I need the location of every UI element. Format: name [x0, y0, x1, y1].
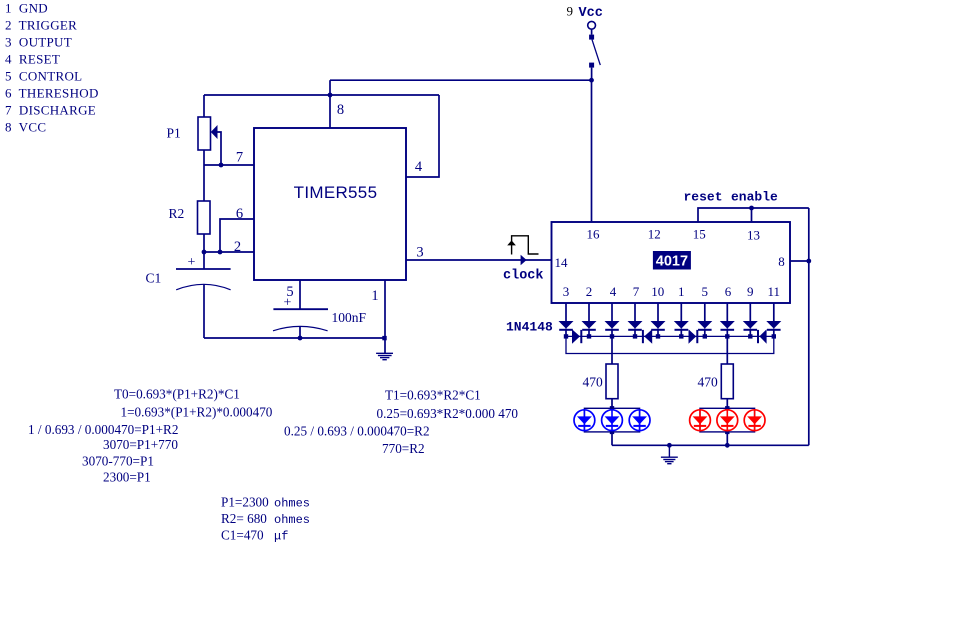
- junction: pin6 riser on pin2 line: [218, 250, 223, 255]
- junction: node 5: [656, 334, 660, 338]
- svg-text:4 RESET: 4 RESET: [5, 52, 60, 67]
- svg-text:6: 6: [236, 206, 243, 222]
- svg-text:7: 7: [633, 284, 640, 299]
- diode D3 (1N4148) with lead: [605, 303, 620, 336]
- wire: reset/enable tie rail: [698, 208, 809, 222]
- junction: pin8 on right rail: [806, 259, 811, 264]
- wire: red bank to ground rail: [726, 432, 728, 445]
- diode D12 (series, left): [643, 329, 652, 344]
- pin numbers 4017 bottom row: [563, 284, 780, 299]
- svg-text:100nF: 100nF: [332, 310, 367, 325]
- resistor R2 body: [198, 201, 211, 234]
- junction: blue bank top: [610, 406, 614, 410]
- svg-text:R2= 680: R2= 680: [221, 511, 267, 526]
- junction: node 4: [633, 334, 637, 338]
- wire: P1 top lead: [203, 95, 205, 117]
- wire: node to R3: [611, 336, 613, 364]
- legend: 555 pin function list: [5, 1, 99, 135]
- potentiometer P1 wiper arrow: [211, 125, 221, 165]
- capacitor C2 top plate: [273, 308, 328, 310]
- svg-text:470: 470: [583, 375, 604, 390]
- capacitor C1 curved plate: [176, 284, 230, 290]
- svg-text:13: 13: [747, 228, 760, 243]
- capacitor C1 top plate: [176, 268, 231, 270]
- svg-text:+: +: [188, 255, 196, 270]
- svg-text:0.25=0.693*R2*0.000 470: 0.25=0.693*R2*0.000 470: [377, 406, 519, 421]
- junction: node 3: [610, 334, 614, 338]
- junction: ground stem: [667, 443, 672, 448]
- junction: node 1: [564, 334, 568, 338]
- wire: LED ground rail: [612, 444, 809, 446]
- svg-text:470: 470: [698, 375, 719, 390]
- svg-text:1=0.693*(P1+R2)*0.000470: 1=0.693*(P1+R2)*0.000470: [121, 405, 273, 420]
- junction: Vcc node: [589, 78, 594, 83]
- diode D11 (series, right): [572, 329, 581, 344]
- svg-text:15: 15: [693, 227, 706, 242]
- wire: blue bank to ground rail: [611, 432, 613, 445]
- svg-text:770=R2: 770=R2: [382, 441, 425, 456]
- ground symbol (LED rail): [661, 445, 678, 463]
- LED red 3: [744, 410, 765, 431]
- junction: enable on rail: [749, 206, 754, 211]
- junction: R2/C1 node: [202, 250, 207, 255]
- svg-text:9: 9: [747, 284, 754, 299]
- junction: wiper on pin7: [219, 163, 224, 168]
- wire: 555 ground rail: [204, 337, 384, 339]
- svg-text:μf: μf: [274, 530, 288, 544]
- junction: ground rail end: [382, 336, 386, 340]
- wire: pin7 node down to R2: [203, 165, 205, 201]
- diode D1 (1N4148) with lead: [559, 303, 574, 336]
- wire: node to R4: [726, 336, 728, 364]
- svg-text:T0=0.693*(P1+R2)*C1: T0=0.693*(P1+R2)*C1: [114, 386, 240, 401]
- LED blue 1: [574, 410, 595, 431]
- LED blue 3: [629, 410, 650, 431]
- svg-text:T1=0.693*R2*C1: T1=0.693*R2*C1: [385, 387, 481, 402]
- svg-text:Vcc: Vcc: [579, 6, 603, 21]
- svg-text:P1=2300: P1=2300: [221, 495, 269, 510]
- junction: blue bank bottom: [610, 430, 614, 434]
- wire: right ground rail: [808, 208, 810, 445]
- svg-text:4017: 4017: [656, 253, 688, 269]
- clock pulse symbol: [507, 236, 538, 255]
- resistor R3 470 body: [606, 364, 618, 399]
- wire: red LED parallel frame: [700, 408, 755, 432]
- svg-text:3070-770=P1: 3070-770=P1: [82, 453, 154, 468]
- wire: Vcc down to 4017 pin 16: [591, 80, 593, 222]
- svg-text:5 CONTROL: 5 CONTROL: [5, 69, 82, 84]
- diode D8 (1N4148) with lead: [720, 303, 735, 336]
- junction: red bank bottom: [725, 430, 729, 434]
- wire: pin 8 stub: [790, 260, 809, 262]
- svg-text:5: 5: [702, 284, 709, 299]
- junction: node 6: [679, 334, 683, 338]
- wire: pin 1 to ground: [384, 280, 386, 353]
- component values block: [221, 495, 310, 544]
- diode D10 (1N4148) with lead: [766, 303, 781, 336]
- svg-text:8 VCC: 8 VCC: [5, 120, 46, 135]
- svg-text:+: +: [284, 296, 292, 311]
- diode D4 (1N4148) with lead: [628, 303, 643, 336]
- svg-text:8: 8: [778, 254, 785, 269]
- arrowhead: signal direction: [521, 255, 527, 265]
- svg-text:TIMER555: TIMER555: [294, 183, 378, 202]
- capacitor C2 curved plate: [273, 326, 328, 330]
- svg-text:8: 8: [337, 102, 344, 118]
- LED red 2: [717, 410, 738, 431]
- svg-text:2 TRIGGER: 2 TRIGGER: [5, 18, 77, 33]
- op-amp U1 TIMER555 body: [254, 128, 406, 280]
- wire: C1 bottom lead: [203, 285, 205, 339]
- svg-text:11: 11: [768, 284, 781, 299]
- svg-text:C1=470: C1=470: [221, 528, 264, 543]
- wire: R4 to red LED bank: [726, 399, 728, 409]
- net label 9 Vcc: [567, 3, 603, 21]
- svg-text:12: 12: [648, 227, 661, 242]
- svg-text:9: 9: [567, 3, 574, 18]
- wire: C2 bottom lead: [299, 327, 301, 338]
- svg-text:ohmes: ohmes: [274, 513, 310, 527]
- junction: node 7: [703, 334, 707, 338]
- formula block T1 (right): [284, 387, 518, 456]
- svg-text:clock: clock: [503, 268, 544, 283]
- wire: diode output node row: [566, 335, 774, 337]
- wire: pin 3 to 4017 clock: [406, 259, 552, 261]
- svg-text:ohmes: ohmes: [274, 497, 310, 511]
- LED red 1: [690, 410, 711, 431]
- svg-text:2: 2: [586, 284, 593, 299]
- svg-text:1 / 0.693 / 0.000470=P1+R2: 1 / 0.693 / 0.000470=P1+R2: [28, 422, 178, 437]
- svg-text:reset: reset: [684, 189, 723, 204]
- junction: node 8: [725, 334, 729, 338]
- junction: red bank top: [725, 406, 729, 410]
- diode D6 (1N4148) with lead: [674, 303, 689, 336]
- ground symbol (555): [376, 353, 393, 359]
- IC U2 4017 body: [552, 222, 791, 303]
- junction: C2 on ground rail: [298, 336, 303, 341]
- resistor R4 470 body: [721, 364, 733, 399]
- diode D13 (series, right): [689, 329, 698, 344]
- wire: lower return rail: [566, 336, 774, 353]
- svg-text:14: 14: [555, 255, 569, 270]
- diode D9 (1N4148) with lead: [743, 303, 758, 336]
- svg-text:4: 4: [415, 159, 423, 175]
- diode D5 (1N4148) with lead: [651, 303, 666, 336]
- wire: pin 5 lead: [299, 280, 301, 309]
- svg-text:P1: P1: [167, 126, 181, 141]
- potentiometer P1 body: [198, 117, 211, 150]
- svg-text:10: 10: [651, 284, 664, 299]
- diode D2 (1N4148) with lead: [582, 303, 597, 336]
- wire: blue LED parallel frame: [584, 408, 639, 432]
- LED blue 2: [602, 410, 623, 431]
- junction: pin8/pin4 rail crossing: [328, 93, 333, 98]
- diode D14 (series, left): [758, 329, 767, 344]
- wire: R2 bottom lead: [203, 234, 205, 252]
- svg-text:4: 4: [610, 284, 617, 299]
- svg-text:16: 16: [587, 227, 601, 242]
- wire: pin8 rail to Vcc switch: [330, 79, 592, 81]
- svg-text:2: 2: [234, 239, 241, 255]
- svg-text:7 DISCHARGE: 7 DISCHARGE: [5, 103, 96, 118]
- wire: pin 6 stub: [220, 219, 254, 252]
- svg-text:1: 1: [371, 288, 378, 304]
- svg-text:R2: R2: [169, 206, 185, 221]
- svg-text:3 OUTPUT: 3 OUTPUT: [5, 35, 72, 50]
- svg-text:0.25 / 0.693 / 0.000470=R2: 0.25 / 0.693 / 0.000470=R2: [284, 424, 430, 439]
- wire: P1 top to pin4 rail: [204, 94, 439, 96]
- wire: C1 top lead: [203, 252, 205, 269]
- wire: pin 2 line: [204, 251, 254, 253]
- wire: R3 to blue LED bank: [611, 399, 613, 409]
- svg-text:1N4148: 1N4148: [506, 319, 553, 334]
- svg-text:3: 3: [563, 284, 570, 299]
- wire: pin 8 vertical of 555: [329, 80, 331, 128]
- svg-text:6 THERESHOD: 6 THERESHOD: [5, 86, 99, 101]
- formula block T0 (left): [28, 386, 273, 484]
- svg-text:3: 3: [416, 245, 423, 261]
- svg-text:7: 7: [236, 150, 243, 166]
- svg-text:1 GND: 1 GND: [5, 1, 48, 16]
- svg-text:1: 1: [678, 284, 685, 299]
- wire: pin 4 connection: [406, 95, 439, 177]
- junction: node 10: [772, 334, 776, 338]
- junction: red bank on ground rail: [725, 443, 730, 448]
- svg-text:C1: C1: [146, 270, 162, 285]
- svg-text:3070=P1+770: 3070=P1+770: [103, 437, 178, 452]
- svg-text:enable: enable: [731, 189, 778, 204]
- junction: node 9: [748, 334, 752, 338]
- svg-text:6: 6: [725, 284, 732, 299]
- switch S1 (power, open): [588, 21, 601, 80]
- wire: pin 7 stub: [204, 164, 254, 166]
- junction: node 2: [587, 334, 591, 338]
- wire: P1 bottom to pin 7: [203, 150, 205, 165]
- diode D7 (1N4148) with lead: [697, 303, 712, 336]
- svg-text:2300=P1: 2300=P1: [103, 470, 151, 485]
